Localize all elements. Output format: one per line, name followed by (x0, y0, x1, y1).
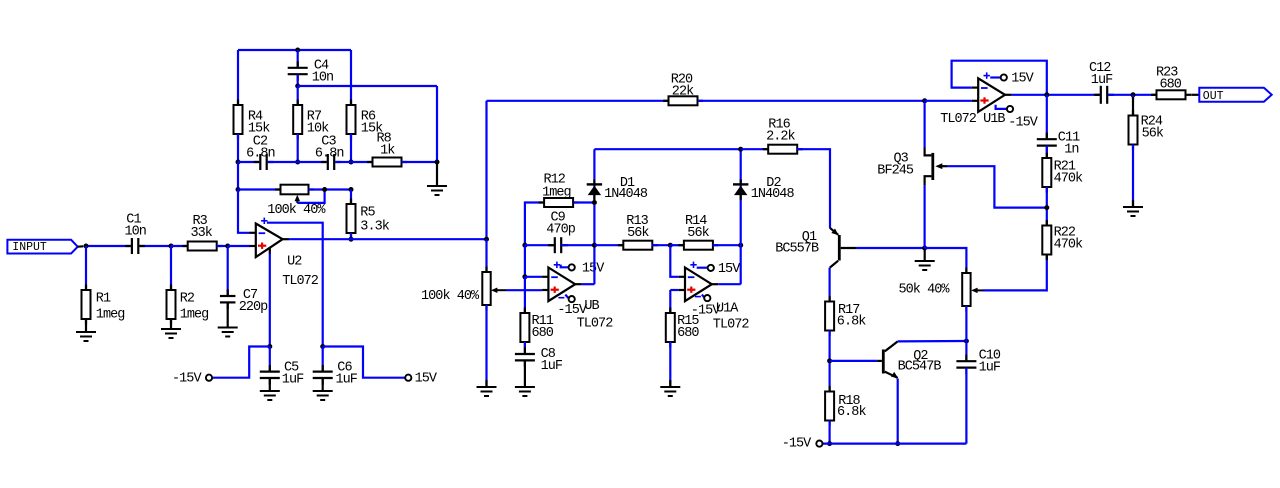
svg-text:R5: R5 (360, 206, 375, 221)
ground R1 (76, 332, 96, 341)
svg-text:470p: 470p (546, 222, 575, 237)
supply wire U3 +15V (561, 265, 569, 268)
wire R18 to rail (828, 421, 830, 444)
svg-text:1uF: 1uF (1091, 73, 1113, 88)
wire U1A non-inverting R15 (670, 290, 678, 313)
wire top rail (238, 49, 351, 51)
wire R23 to OUT (1191, 94, 1199, 96)
supply minus dash U3 (558, 297, 564, 299)
wire C4 bottom rail (298, 85, 437, 87)
resistor R21 (1042, 153, 1083, 193)
transistor Q3 BF245 (877, 148, 947, 186)
svg-text:33k: 33k (191, 226, 213, 241)
svg-text:1uF: 1uF (979, 360, 1001, 375)
resistor R23 (1151, 65, 1191, 99)
node R14 right junction (738, 243, 743, 248)
svg-text:220p: 220p (239, 300, 268, 315)
node R21 R22 junction (1044, 205, 1049, 210)
node R8 right (435, 160, 440, 165)
svg-text:U1A: U1A (716, 301, 739, 316)
svg-text:OUT: OUT (1203, 90, 1224, 103)
node R7 bottom (295, 160, 300, 165)
node C9 left (522, 243, 527, 248)
ground P2 (477, 387, 497, 396)
node pot row right (349, 187, 354, 192)
wire C6 to 15V (323, 347, 406, 378)
svg-text:INPUT: INPUT (12, 241, 47, 254)
svg-text:BC557B: BC557B (775, 241, 819, 256)
resistor R12 (525, 173, 595, 246)
op-amp U1A (679, 262, 750, 333)
port flag INPUT (7, 240, 83, 254)
wire input row (86, 245, 171, 247)
wire R16 to Q1 emitter (797, 149, 830, 228)
capacitor C4 (288, 50, 333, 86)
node R6 bottom (349, 160, 354, 165)
svg-text:1n: 1n (1064, 142, 1078, 157)
wire U2 output row (289, 238, 487, 240)
wire Q1 collector (828, 268, 830, 302)
wire down to U2 inverting input (238, 190, 250, 233)
diode D2 (733, 176, 794, 202)
wire diode rail (594, 148, 740, 150)
op-amp U1B (940, 72, 1011, 127)
wire R4 to cap row (237, 134, 239, 162)
terminal U3 -15V (557, 296, 587, 318)
wire C12 to R23 (1108, 94, 1156, 96)
node P3 bottom junction (964, 339, 969, 344)
svg-text:1meg: 1meg (96, 308, 125, 323)
node C4 bottom (295, 84, 300, 89)
wire main row vertical (485, 101, 487, 239)
node R18 bottom (827, 441, 832, 446)
svg-text:TL072 U1B: TL072 U1B (940, 112, 1005, 127)
node Q2 base junction (827, 358, 832, 363)
terminal U1B +15V (1001, 71, 1035, 86)
capacitor C6 (313, 347, 358, 392)
port flag OUT (1199, 88, 1271, 103)
terminal 15V left (405, 372, 438, 387)
wire Q3 drain (923, 101, 925, 148)
wire Q2 base (830, 360, 882, 362)
svg-text:-15V: -15V (172, 372, 202, 387)
resistor R22 (1042, 220, 1083, 260)
wire to U2 non-inverting (228, 245, 250, 247)
svg-text:56k: 56k (687, 226, 709, 241)
svg-text:15V: 15V (718, 262, 741, 277)
supply wire U1B +15V (990, 76, 1000, 78)
potentiometer P3 50k (899, 268, 984, 312)
svg-text:56k: 56k (627, 226, 649, 241)
wire Q3 source (923, 185, 925, 248)
terminal -15V left (172, 372, 212, 387)
svg-text:1meg: 1meg (180, 308, 209, 323)
wire base node to P3 (925, 248, 967, 273)
supply wire U1A +15V (697, 267, 708, 269)
svg-text:470k: 470k (1054, 237, 1083, 252)
wire P2 bottom to ground (485, 305, 487, 387)
svg-text:680: 680 (1160, 77, 1182, 92)
terminal U1B -15V (1007, 106, 1039, 130)
capacitor C5 (260, 347, 304, 392)
resistor R20 (663, 72, 703, 105)
ground R15 (660, 387, 680, 396)
wire U2 Vminus (269, 248, 271, 347)
wire right vertical to R8 (436, 86, 438, 162)
node R5 bottom (349, 237, 354, 242)
supply minus dash U1A (695, 296, 701, 298)
svg-text:1uF: 1uF (282, 372, 304, 387)
transistor Q1 BC557B (775, 228, 856, 268)
svg-text:22k: 22k (672, 84, 694, 99)
node main row junction (484, 237, 489, 242)
svg-text:1uF: 1uF (336, 372, 358, 387)
resistor R18 (825, 386, 866, 426)
ground R8 (427, 186, 447, 195)
resistor R15 (666, 308, 700, 388)
wire U1A output (718, 283, 741, 285)
svg-text:-15V: -15V (1008, 115, 1038, 130)
node U3 inverting junction (522, 274, 527, 279)
supply wire U1A -15V (702, 295, 705, 298)
capacitor C8 (515, 342, 563, 387)
capacitor C2 (238, 134, 298, 170)
ground C7 (218, 328, 238, 337)
node C5 top (267, 344, 272, 349)
wire Q1 base (857, 247, 925, 249)
wire U1B feedback (952, 61, 1047, 95)
wire to P2 top (485, 239, 487, 272)
resistor R3 (171, 214, 228, 250)
svg-text:BC547B: BC547B (898, 359, 942, 374)
node pot row left (236, 187, 241, 192)
ground C5 (260, 391, 280, 400)
op-amp U2 (250, 218, 319, 289)
resistor R1 (82, 246, 125, 332)
wire R17 to R18 (828, 331, 830, 392)
ground R2 (161, 329, 181, 338)
svg-text:3.3k: 3.3k (360, 220, 389, 235)
resistor R16 (741, 117, 803, 153)
resistor R24 (1129, 95, 1164, 150)
node C4 top (295, 48, 300, 53)
svg-text:100k 40%: 100k 40% (267, 203, 326, 218)
wire Q2 emitter (897, 379, 899, 444)
terminal U1A +15V (708, 262, 742, 277)
wire U3 output (582, 283, 595, 285)
ground Q1 base node (915, 248, 935, 270)
svg-text:15V: 15V (1011, 71, 1034, 86)
supply wire U1B -15V (996, 105, 1007, 109)
svg-text:BF245: BF245 (877, 163, 914, 178)
svg-text:470k: 470k (1054, 171, 1083, 186)
ground C8 (515, 387, 535, 396)
node U1B output junction (1044, 92, 1049, 97)
wire to U1B non-inverting (925, 100, 972, 102)
wire -15V to C5 (212, 347, 270, 378)
svg-text:U2: U2 (287, 255, 302, 270)
svg-text:1N4048: 1N4048 (751, 187, 795, 202)
capacitor C7 (220, 246, 268, 328)
transistor Q2 BC547B (883, 341, 941, 378)
resistor R13 (594, 214, 670, 250)
wire to U3 inverting (525, 276, 542, 278)
diode D2 vertical net (740, 149, 742, 284)
svg-text:TL072: TL072 (713, 317, 750, 332)
resistor R8 (351, 131, 437, 166)
resistor R6 (347, 50, 384, 162)
wire Q3 gate (947, 166, 1047, 207)
wire U1A inverting (670, 245, 678, 277)
resistor R2 (167, 246, 209, 329)
wire R24 to ground (1132, 145, 1134, 208)
capacitor C1 (125, 212, 146, 254)
capacitor C10 (956, 341, 1001, 444)
wire R21 to junction (1046, 187, 1048, 226)
node R4 bottom (236, 160, 241, 165)
node junction C7 (225, 244, 230, 249)
resistor R7 (293, 86, 329, 162)
resistor R5 (347, 190, 390, 240)
wire P3 wiper to R22 (983, 255, 1047, 291)
svg-text:R1: R1 (96, 292, 111, 307)
svg-text:50k 40%: 50k 40% (899, 282, 951, 297)
potentiometer P2 100k (421, 267, 506, 311)
wire R20 rail right (698, 100, 925, 102)
svg-text:1uF: 1uF (541, 359, 563, 374)
svg-text:-15V: -15V (691, 304, 721, 319)
wire U2 Vplus rail (267, 223, 323, 347)
svg-text:-15V: -15V (782, 437, 812, 452)
wire -15V rail (823, 443, 967, 445)
terminal U1A -15V (691, 295, 721, 319)
wire P1 wiper (297, 190, 324, 203)
potentiometer P1 100k (238, 185, 351, 219)
node Q1 base junction (922, 246, 927, 251)
node Q3 drain junction (922, 98, 927, 103)
svg-text:UB: UB (584, 299, 599, 314)
svg-text:6.8k: 6.8k (837, 405, 866, 420)
node C9 right (592, 243, 597, 248)
ground R24 (1123, 207, 1143, 216)
wire P2 wiper to U3 non-inverting (506, 289, 542, 291)
diode D1 (587, 176, 648, 202)
node D1 anode junction (592, 200, 597, 205)
svg-text:680: 680 (532, 326, 554, 341)
node junction R2 (169, 244, 174, 249)
svg-text:2.2k: 2.2k (766, 129, 795, 144)
svg-text:56k: 56k (1142, 126, 1164, 141)
node R13 R14 junction (668, 243, 673, 248)
node R24 top junction (1131, 92, 1136, 97)
svg-text:680: 680 (677, 326, 699, 341)
supply wire U3 -15V (565, 295, 568, 299)
svg-text:1k: 1k (380, 143, 395, 158)
resistor R4 (234, 100, 271, 140)
terminal U3 +15V (569, 261, 606, 276)
resistor R11 (520, 277, 553, 348)
wire R20 rail left (487, 100, 669, 102)
capacitor C12 (1089, 61, 1114, 104)
capacitor C9 (525, 210, 595, 253)
wire to ground (436, 162, 438, 186)
op-amp U3 (542, 262, 613, 332)
wire P3 bottom (965, 306, 967, 341)
svg-text:1meg: 1meg (542, 185, 571, 200)
node D2 top junction (738, 147, 743, 152)
capacitor C3 (298, 134, 351, 170)
svg-text:100k 40%: 100k 40% (421, 289, 480, 304)
node Q2 emitter rail (895, 441, 900, 446)
svg-text:15V: 15V (415, 372, 438, 387)
ground C6 (313, 391, 333, 400)
svg-text:TL072: TL072 (577, 316, 614, 331)
terminal -15V right (782, 437, 823, 452)
svg-text:6.8n: 6.8n (315, 146, 344, 161)
svg-text:6.8k: 6.8k (837, 315, 866, 330)
svg-text:1N4048: 1N4048 (604, 187, 648, 202)
svg-text:TL072: TL072 (282, 274, 319, 289)
svg-text:R2: R2 (180, 291, 195, 306)
node C6 top (320, 344, 325, 349)
svg-text:10n: 10n (312, 70, 333, 85)
node input junction R1 (84, 244, 89, 249)
resistor R17 (825, 296, 866, 336)
wire cap row to pot row (237, 162, 239, 190)
svg-text:6.8n: 6.8n (246, 146, 275, 161)
diode D1 vertical net (593, 149, 595, 284)
wire Q2 collector (898, 340, 967, 343)
svg-text:-15V: -15V (557, 303, 587, 318)
wire inv node down (524, 245, 526, 277)
wire U1B output row (1011, 94, 1099, 96)
node P1 wiper junction (322, 187, 327, 192)
svg-text:10n: 10n (125, 224, 146, 239)
resistor R14 (670, 214, 740, 250)
wire left vertical to R4 (237, 50, 239, 105)
capacitor C11 (1037, 95, 1080, 158)
